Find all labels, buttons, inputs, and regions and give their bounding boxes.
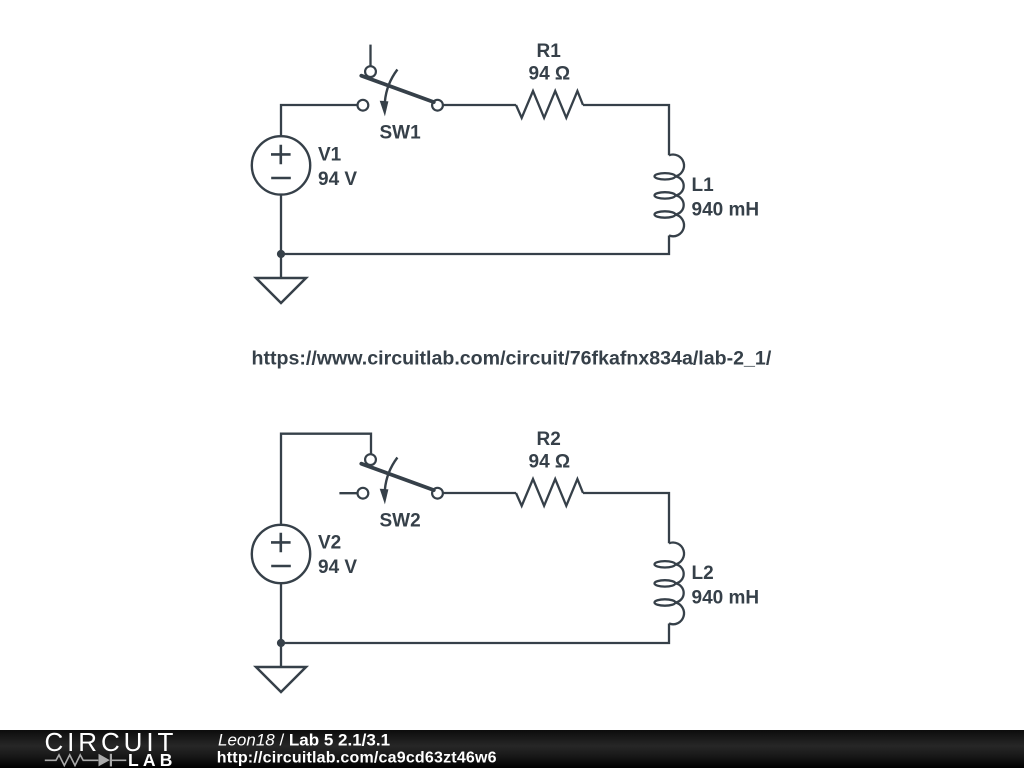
V2 circle [252,525,310,583]
svg-text:94 Ω: 94 Ω [529,64,571,85]
V1 plus sign [271,145,291,165]
junction dot node 1 [277,250,285,258]
svg-text:https://www.circuitlab.com/cir: https://www.circuitlab.com/circuit/76fka… [252,347,772,369]
svg-text:94 Ω: 94 Ω [529,452,571,473]
SW1 actuation arrow arc [385,70,398,102]
footer bar [0,727,1024,768]
svg-text:SW1: SW1 [380,122,422,143]
wire V2 top to SW2 top throw [281,434,371,525]
SW2 lever arm [361,464,434,490]
switch SW1 [358,45,443,117]
wire R1 to L1 top [583,105,669,155]
resistor R2 [516,479,583,506]
wire ground stub 2 [280,643,282,667]
junction dot node 2 [277,639,285,647]
SW2 left throw terminal circle [358,488,369,499]
svg-text:R1: R1 [537,41,562,62]
SW1 lever arm [361,76,434,102]
svg-text:V1: V1 [318,144,342,165]
inductor L2 coil [655,543,685,625]
switch SW2 [339,454,443,504]
V1 circle [252,136,310,194]
V1 minus sign [271,177,291,180]
svg-text:R2: R2 [537,429,561,450]
SW1 left throw terminal circle [358,100,369,111]
svg-text:94 V: 94 V [318,169,357,190]
svg-text:V2: V2 [318,532,341,553]
svg-text:940 mH: 940 mH [692,200,760,221]
SW2 actuation arrow arc [385,458,398,490]
wire ground stub 1 [280,254,282,278]
wire R2 to L2 top [583,493,669,543]
wire L2 bottom to ground rail [281,624,669,644]
svg-text:L2: L2 [692,563,714,584]
wire SW2 pole to R2 [443,492,516,494]
wire V1 top to SW1 left throw [281,105,357,136]
resistor R1 [516,91,583,118]
wire V2 bottom to ground node [280,583,282,643]
inductor L1 coil [655,155,685,237]
voltage source V2 [252,525,310,583]
svg-text:http://circuitlab.com/ca9cd63z: http://circuitlab.com/ca9cd63zt46w6 [217,750,497,767]
wire SW1 pole to R1 [443,104,516,106]
svg-text:SW2: SW2 [380,510,421,531]
svg-text:940 mH: 940 mH [692,588,760,609]
ground symbol 1 [256,278,306,303]
svg-text:L1: L1 [692,175,715,196]
SW1 arrowhead [380,101,389,117]
SW2 arrowhead [380,489,389,505]
ground symbol 2 [256,667,306,692]
SW1 pole terminal circle [432,100,443,111]
wire SW2 left throw stub [339,492,357,494]
V2 plus sign [271,533,291,553]
svg-text:LAB: LAB [128,750,177,768]
svg-text:Leon18 / Lab 5 2.1/3.1: Leon18 / Lab 5 2.1/3.1 [218,731,390,750]
wire L1 bottom to ground rail [281,236,669,255]
svg-text:94 V: 94 V [318,557,357,578]
voltage source V1 [252,136,310,194]
wire V1 bottom to ground node [280,195,282,255]
logo resistor squiggle and diode [45,754,127,767]
SW1 top throw terminal circle [365,66,376,77]
V2 minus sign [271,565,291,568]
SW2 pole terminal circle [432,488,443,499]
wire SW1 top throw stub [369,45,371,66]
SW2 top throw terminal circle [365,454,376,465]
